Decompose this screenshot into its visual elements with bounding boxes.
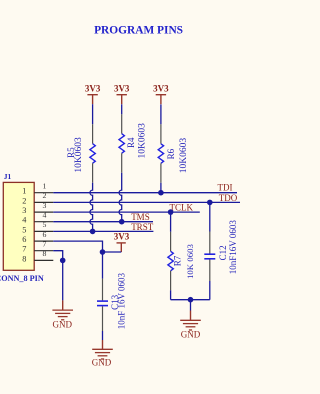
node pin7/pin8 junction [60,258,66,264]
pin 6 stub [34,240,53,242]
wire C12 down to gnd rail [209,281,211,300]
node gnd rail junction [188,297,194,303]
svg-text:TDO: TDO [219,193,238,203]
node pin6/3V3/C13 junction [100,249,106,255]
svg-text:TMS: TMS [131,212,150,222]
wire row1 pin1 to TDI [53,192,237,194]
svg-text:TRST: TRST [131,222,154,232]
pin names 1-8 (inside connector body) [22,187,27,264]
svg-text:PROGRAM PINS: PROGRAM PINS [94,25,183,37]
svg-text:2: 2 [22,196,26,205]
svg-text:TDI: TDI [218,183,233,193]
svg-text:2: 2 [42,191,46,200]
svg-text:10K0603: 10K0603 [74,137,84,173]
wire junction down to C13 [102,252,104,279]
svg-text:4: 4 [42,211,46,220]
svg-text:3V3: 3V3 [153,84,169,94]
pin 4 stub [34,221,53,223]
pin 3 stub [34,211,53,213]
svg-text:10nF16V 0603: 10nF16V 0603 [228,220,238,275]
svg-text:GND: GND [92,358,112,368]
node R5-row5 junction [90,229,96,235]
svg-text:3V3: 3V3 [114,232,130,242]
svg-text:8: 8 [42,249,46,258]
node row2-C12 junction [207,200,213,206]
wire R7 down to gnd rail [170,290,172,299]
resistor R5 [90,104,95,183]
svg-text:7: 7 [42,240,46,249]
svg-text:3V3: 3V3 [114,84,130,94]
svg-text:5: 5 [42,220,46,229]
resistor R6 [158,104,163,182]
power 3V3 (at pin6 net) [114,232,130,253]
capacitor C12 [204,232,215,282]
wire row7 pin7 down to pin8 [53,251,62,261]
wire row5 pin5 to TRST [53,230,153,232]
svg-text:TCLK: TCLK [170,202,194,212]
svg-text:R4: R4 [126,137,136,148]
svg-text:5: 5 [22,225,26,234]
ground symbol right (R7/C12) [180,311,201,340]
power 3V3 (above R6) [153,84,169,105]
svg-text:8: 8 [22,254,26,263]
wire row2 pin2 to TDO [53,201,240,203]
connector J1 body [3,182,34,270]
svg-text:7: 7 [22,245,26,254]
wire gnd rail R7 to C12 [171,299,210,301]
svg-text:6: 6 [42,230,46,239]
capacitor C13 [97,279,108,331]
svg-text:10K 0603: 10K 0603 [185,243,195,279]
wire row3 junction down to R7 [170,212,172,232]
wire R4 down to row4 with hops over rows 1-3 [119,173,122,222]
wire row6 pin6 to 3V3/C13 branch [53,241,102,252]
ground symbol bottom (C13) [92,340,113,368]
wire pin6 junction to 3V3 stem [103,251,122,253]
svg-text:C12: C12 [218,245,228,260]
pin 1 stub [34,192,53,194]
svg-text:R6: R6 [166,148,176,159]
wire R6 down to row1 [160,183,162,193]
svg-text:10K0603: 10K0603 [179,138,189,174]
svg-text:3: 3 [22,206,26,215]
node R6-row1 junction [158,190,164,196]
resistor R7 [168,232,173,290]
resistor R4 [119,104,124,172]
power 3V3 (above R4) [114,84,130,105]
svg-text:3V3: 3V3 [85,84,101,94]
svg-text:6: 6 [22,235,26,244]
pin 5 stub [34,230,53,232]
wire pin7/8 junction down to GND [62,260,64,300]
svg-text:3: 3 [42,201,46,210]
power 3V3 (above R5) [85,84,101,105]
wire row4 pin4 to TMS [53,221,153,223]
svg-text:1: 1 [42,182,46,191]
svg-text:R7: R7 [173,255,183,266]
ground symbol left (pins 7/8) [52,300,73,329]
pin 2 stub [34,201,53,203]
pin 8 stub [34,259,53,261]
svg-text:GND: GND [53,319,73,329]
svg-text:10K0603: 10K0603 [138,123,148,159]
svg-text:GND: GND [181,329,201,339]
svg-text:CONN_8 PIN: CONN_8 PIN [0,274,44,283]
svg-text:J1: J1 [4,172,12,181]
svg-text:1: 1 [22,187,26,196]
pin numbers 1-8 (outside designators) [42,182,46,259]
wire R5 down to row5 with hops over rows 1-4 [90,183,93,232]
wire row3 pin3 to TCLK [53,211,200,213]
node row3-R7 junction [168,209,174,215]
svg-text:10nF 16V 0603: 10nF 16V 0603 [116,272,126,329]
pin 7 stub [34,250,53,252]
node R4-row4 junction [119,219,125,225]
wire gnd rail junction down [190,300,192,311]
wire C13 down to GND [102,331,104,340]
wire row2 junction down to C12 [209,202,211,231]
